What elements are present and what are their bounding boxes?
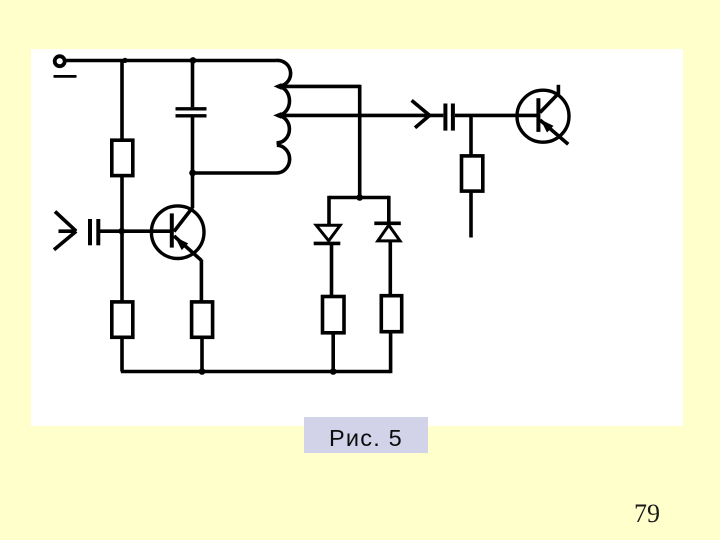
antenna arrow input <box>54 212 76 250</box>
page number <box>634 499 660 529</box>
capacitor C3 <box>443 104 447 131</box>
resistor R3 <box>192 302 213 337</box>
resistor R5 <box>323 297 345 333</box>
minus mark <box>54 75 77 78</box>
wire base Q1 <box>99 229 172 233</box>
output arrow <box>412 100 430 127</box>
white drawing panel <box>31 49 683 426</box>
node dot bottom D1 branch <box>330 368 337 375</box>
wire D1 to R5 <box>330 243 334 296</box>
node dot top C1 branch <box>190 57 197 64</box>
wire R4 output <box>469 191 473 237</box>
node dot diode header <box>356 194 363 201</box>
wire D2 cathode <box>387 196 391 224</box>
inductor L1 <box>193 60 291 173</box>
diode D1 <box>316 225 340 241</box>
tap arrow upper <box>274 83 282 90</box>
wire tap2 to C3 <box>279 114 443 118</box>
wire tap1 vertical <box>358 85 362 198</box>
wire tap1 horizontal <box>279 85 360 89</box>
wire emitter Q1 <box>200 260 204 302</box>
wire bottom rail <box>121 370 391 374</box>
resistor R4 <box>462 156 483 191</box>
wire R4 branch <box>469 115 473 155</box>
node dot coil/collector <box>189 170 196 177</box>
node dot bottom R3 <box>199 368 206 375</box>
transistor Q2 <box>517 85 569 144</box>
capacitor C1 <box>176 107 207 110</box>
transistor Q1 <box>151 206 204 260</box>
terminal input circle <box>55 56 65 66</box>
wire left rail lower <box>120 337 124 371</box>
wire left rail upper <box>120 61 124 141</box>
wire R5 to bottom rail <box>331 333 335 372</box>
wire left rail middle <box>120 176 124 302</box>
wire diode header <box>329 196 389 200</box>
wire D1 anode <box>327 196 331 226</box>
wire C3 to Q2 base <box>455 114 538 118</box>
resistor R1 <box>112 140 133 175</box>
node dot top-left rail <box>122 58 127 63</box>
diode D2 <box>374 222 401 226</box>
resistor R2 <box>112 302 133 337</box>
tap arrow lower <box>273 112 281 119</box>
wire top rail <box>65 59 277 63</box>
capacitor C2 <box>88 219 92 245</box>
wire D2 to R6 <box>388 241 392 296</box>
wire R3 to ground rail <box>200 337 204 371</box>
node dot base rail <box>118 228 125 235</box>
wire C1 to collector node <box>191 118 195 209</box>
caption box <box>304 417 428 453</box>
wire C1 branch upper <box>191 61 195 108</box>
wire R6 to bottom rail <box>389 332 393 374</box>
resistor R6 <box>381 296 401 332</box>
